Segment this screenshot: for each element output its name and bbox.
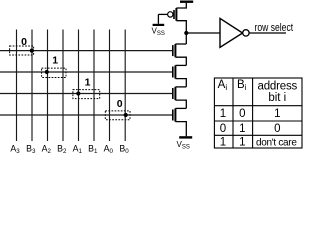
svg-text:0: 0 [117, 98, 123, 110]
svg-text:1: 1 [239, 123, 245, 135]
svg-text:1: 1 [85, 77, 91, 89]
svg-text:VSS: VSS [152, 27, 165, 38]
svg-text:B0: B0 [119, 143, 129, 154]
svg-text:0: 0 [220, 123, 226, 135]
svg-text:Ai: Ai [218, 79, 228, 92]
svg-text:A0: A0 [104, 143, 114, 154]
svg-text:1: 1 [274, 108, 280, 120]
svg-text:0: 0 [274, 123, 280, 135]
svg-text:A2: A2 [42, 143, 52, 154]
svg-text:VSS: VSS [177, 140, 190, 151]
svg-text:0: 0 [239, 108, 245, 120]
svg-text:1: 1 [220, 137, 226, 149]
svg-text:A1: A1 [73, 143, 83, 154]
svg-text:B2: B2 [57, 143, 67, 154]
svg-text:address: address [258, 80, 298, 92]
svg-text:1: 1 [52, 55, 58, 67]
svg-text:B3: B3 [26, 143, 36, 154]
svg-text:A3: A3 [10, 143, 20, 154]
svg-text:row select: row select [255, 22, 294, 34]
svg-text:B1: B1 [88, 143, 98, 154]
svg-text:1: 1 [220, 108, 226, 120]
svg-text:0: 0 [21, 36, 27, 48]
svg-text:1: 1 [239, 137, 245, 149]
svg-text:bit i: bit i [268, 92, 286, 104]
svg-text:Bi: Bi [237, 79, 247, 92]
svg-text:don't care: don't care [256, 138, 297, 149]
